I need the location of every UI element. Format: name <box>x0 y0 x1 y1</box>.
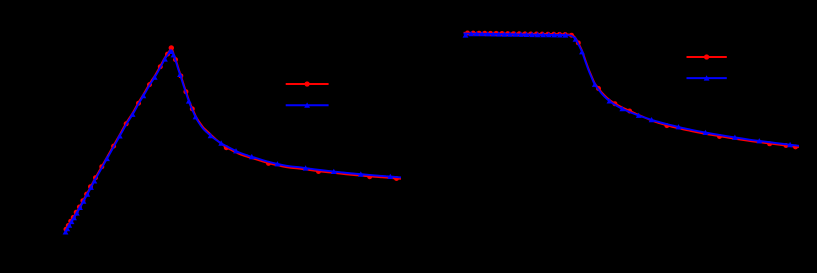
right legend: red entry <box>687 54 727 59</box>
left plot: blue curve (triangles) <box>63 49 401 235</box>
right legend: blue entry <box>687 75 727 80</box>
left legend: red entry <box>286 81 329 86</box>
left legend: blue entry <box>286 102 329 107</box>
right plot: blue curve (triangles) <box>463 31 799 147</box>
left plot: red curve (circles) <box>64 45 402 232</box>
right plot: red curve (circles) <box>464 31 800 150</box>
